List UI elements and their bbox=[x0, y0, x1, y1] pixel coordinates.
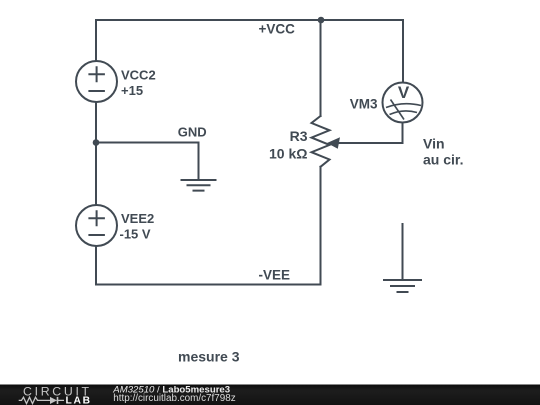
svg-text:+VCC: +VCC bbox=[259, 22, 296, 37]
svg-text:http://circuitlab.com/c7f798z: http://circuitlab.com/c7f798z bbox=[113, 393, 235, 404]
wire R3 bottom lead bbox=[320, 167, 322, 285]
svg-text:mesure 3: mesure 3 bbox=[178, 349, 240, 365]
wire top rail right segment bbox=[321, 19, 403, 21]
voltage source VEE2 bbox=[76, 205, 117, 246]
svg-text:+15: +15 bbox=[121, 83, 143, 98]
wire VEE2 bottom to bottom rail bbox=[95, 246, 97, 285]
svg-text:Vin: Vin bbox=[423, 136, 445, 152]
wire top rail left segment bbox=[96, 19, 321, 21]
svg-text:-15 V: -15 V bbox=[120, 226, 151, 241]
wire VCC2 bottom to VEE2 top bbox=[95, 102, 97, 205]
potentiometer R3 body bbox=[312, 116, 330, 167]
ground GND bbox=[182, 180, 216, 191]
svg-text:GND: GND bbox=[178, 124, 207, 139]
wire R3 top lead bbox=[320, 20, 322, 116]
ground floating bottom right bbox=[384, 224, 421, 292]
potentiometer R3 wiper arrow bbox=[327, 137, 403, 149]
node GND junction bbox=[93, 139, 100, 146]
svg-text:V: V bbox=[398, 83, 410, 102]
wire down to VM3 top bbox=[402, 20, 404, 83]
wire wiper up to VM3 bottom bbox=[402, 123, 404, 144]
svg-text:-VEE: -VEE bbox=[259, 268, 291, 283]
wire GND branch bbox=[96, 143, 199, 181]
svg-text:VEE2: VEE2 bbox=[121, 211, 154, 226]
svg-text:LAB: LAB bbox=[66, 396, 92, 405]
node junction on top rail bbox=[318, 17, 325, 24]
svg-text:au cir.: au cir. bbox=[423, 151, 463, 167]
svg-text:VM3: VM3 bbox=[350, 96, 378, 111]
voltmeter VM3 bbox=[383, 83, 423, 123]
svg-text:VCC2: VCC2 bbox=[121, 67, 156, 82]
footer bar bbox=[0, 385, 540, 405]
svg-text:R3: R3 bbox=[290, 128, 308, 144]
voltage source VCC2 bbox=[76, 61, 117, 102]
wire top-left vertical (VCC2 top lead up to top rail) bbox=[95, 20, 97, 61]
svg-text:10 kΩ: 10 kΩ bbox=[269, 145, 307, 161]
wire bottom rail bbox=[96, 284, 321, 286]
logo CircuitLab bbox=[19, 385, 92, 405]
